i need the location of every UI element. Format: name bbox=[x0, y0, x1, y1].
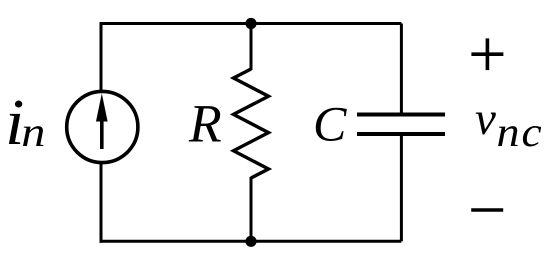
svg-text:n: n bbox=[21, 109, 45, 155]
capacitor C top plate bbox=[357, 113, 445, 117]
svg-text:R: R bbox=[188, 94, 222, 154]
current source arrow head bbox=[96, 93, 108, 121]
junction node: bottom bbox=[245, 236, 256, 247]
wire: bottom rail bbox=[100, 240, 402, 243]
svg-text:v: v bbox=[475, 93, 496, 145]
svg-text:C: C bbox=[313, 96, 347, 152]
svg-text:n: n bbox=[497, 109, 520, 156]
wire: capacitor branch upper segment bbox=[400, 24, 403, 115]
wire: resistor branch lower segment bbox=[250, 177, 253, 241]
svg-text:c: c bbox=[522, 109, 542, 155]
wire: resistor branch upper segment bbox=[250, 24, 253, 71]
wire: left branch lower segment bbox=[100, 162, 103, 243]
plus sign (polarity +) horizontal bar bbox=[471, 52, 503, 56]
current source arrow shaft bbox=[100, 112, 104, 149]
resistor R zigzag bbox=[234, 69, 269, 178]
capacitor C bottom plate bbox=[357, 132, 445, 136]
wire: capacitor branch lower segment bbox=[400, 134, 403, 241]
junction node: top bbox=[245, 18, 256, 29]
plus sign (polarity +) vertical bar bbox=[486, 38, 490, 70]
current source U1 circle bbox=[67, 91, 138, 162]
wire: top rail bbox=[100, 22, 402, 25]
wire: left branch upper segment bbox=[100, 22, 103, 92]
minus sign (polarity -) bbox=[471, 208, 503, 211]
